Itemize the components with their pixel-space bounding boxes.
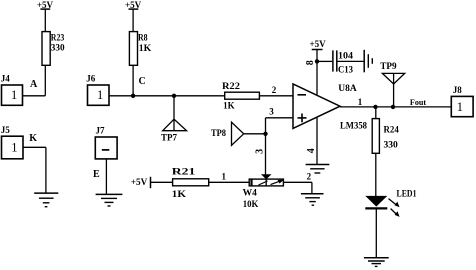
svg-text:R24: R24 (384, 125, 400, 135)
svg-text:R23: R23 (51, 32, 65, 42)
svg-text:2: 2 (307, 171, 312, 181)
svg-text:TP8: TP8 (211, 128, 226, 138)
svg-text:C: C (139, 76, 146, 87)
svg-text:104: 104 (338, 50, 354, 60)
svg-text:+5V: +5V (131, 177, 148, 187)
svg-text:330: 330 (51, 42, 65, 52)
svg-text:TP7: TP7 (161, 133, 177, 143)
svg-text:1K: 1K (139, 43, 152, 53)
svg-text:E: E (93, 169, 100, 180)
svg-text:Fout: Fout (410, 97, 426, 107)
svg-text:8: 8 (305, 60, 316, 65)
svg-text:J4: J4 (1, 73, 11, 83)
svg-text:A: A (30, 79, 38, 90)
svg-text:1: 1 (457, 100, 463, 114)
svg-text:1K: 1K (223, 101, 235, 111)
svg-text:+5V: +5V (310, 39, 327, 49)
svg-text:1K: 1K (172, 189, 186, 199)
svg-text:R22: R22 (222, 81, 240, 91)
svg-text:+5V: +5V (37, 0, 54, 10)
svg-text:330: 330 (384, 140, 399, 150)
svg-text:R8: R8 (138, 33, 148, 43)
svg-text:1: 1 (358, 97, 363, 107)
svg-text:2: 2 (272, 85, 277, 95)
svg-text:K: K (29, 133, 37, 144)
svg-text:1: 1 (97, 88, 103, 102)
svg-text:1: 1 (11, 141, 17, 155)
svg-text:+5V: +5V (125, 0, 142, 10)
svg-text:C13: C13 (338, 65, 353, 75)
svg-text:3: 3 (269, 107, 274, 117)
svg-text:1: 1 (11, 88, 17, 102)
svg-text:J5: J5 (1, 125, 11, 135)
svg-text:J6: J6 (86, 73, 96, 83)
svg-text:LED1: LED1 (397, 188, 417, 198)
svg-text:TP9: TP9 (380, 61, 397, 71)
svg-text:10K: 10K (243, 199, 259, 209)
svg-text:4: 4 (306, 148, 317, 153)
svg-text:J7: J7 (96, 126, 106, 136)
svg-text:1: 1 (222, 171, 227, 181)
svg-text:LM358: LM358 (340, 121, 367, 131)
svg-text:J8: J8 (453, 85, 463, 95)
svg-text:R21: R21 (172, 167, 196, 177)
svg-text:W4: W4 (243, 187, 258, 197)
svg-text:U8A: U8A (338, 83, 357, 93)
svg-text:3: 3 (255, 149, 266, 154)
